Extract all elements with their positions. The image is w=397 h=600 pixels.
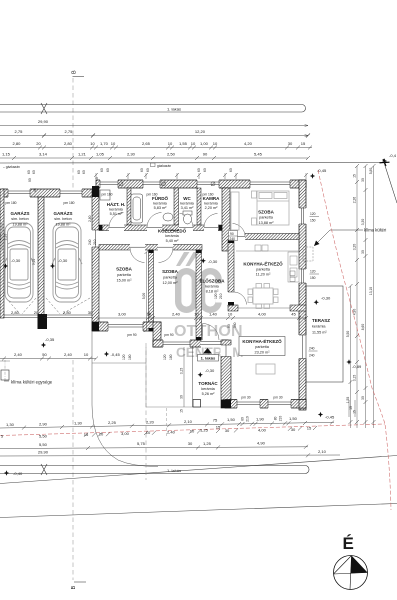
- svg-text:10: 10: [194, 312, 199, 317]
- wall SZOBA1-SZOBA2: [149, 250, 154, 331]
- svg-text:parketta: parketta: [255, 345, 270, 349]
- svg-text:30: 30: [361, 178, 365, 182]
- garage middle wall: [38, 197, 44, 318]
- svg-text:2,75: 2,75: [65, 129, 74, 134]
- wall SZOBAr bottom: [230, 233, 299, 240]
- SECTION-BOTTOM: [0, 416, 397, 590]
- garage door swing dashes 1: [6, 298, 36, 314]
- svg-text:60: 60: [100, 168, 104, 172]
- tiny rotated dims top wall: [27, 168, 237, 360]
- svg-text:kerámia: kerámia: [201, 387, 215, 391]
- SECTION-LABELS: [0, 168, 362, 413]
- svg-text:15: 15: [307, 426, 312, 431]
- room KAMRA: [203, 196, 220, 210]
- svg-text:30: 30: [361, 396, 365, 400]
- boundary corner marker: [380, 159, 390, 166]
- svg-text:kerámia: kerámia: [165, 234, 179, 238]
- svg-text:30: 30: [225, 428, 230, 433]
- front door gap: [201, 340, 222, 348]
- klima kulteri label right: [314, 228, 386, 247]
- entrance marker 1.lakas: [198, 348, 219, 361]
- corridor bottom wall: [99, 244, 202, 251]
- svg-text:60: 60: [197, 168, 201, 172]
- svg-text:pm 180: pm 180: [6, 201, 17, 205]
- svg-text:1,30: 1,30: [74, 421, 83, 426]
- svg-text:12,00 m²: 12,00 m²: [163, 281, 179, 285]
- svg-text:B: B: [72, 70, 78, 74]
- dim row B line: [0, 135, 308, 137]
- svg-text:pm 90: pm 90: [127, 333, 136, 337]
- east wall window KONYHA 120/150: [299, 269, 307, 283]
- dim row plan middle: [94, 312, 308, 321]
- driveway south line garage1 stub: [0, 360, 10, 362]
- garage window 1: [8, 188, 30, 197]
- svg-text:2,50: 2,50: [167, 152, 176, 157]
- red utility dashed line: [0, 424, 385, 436]
- svg-text:3,30: 3,30: [361, 219, 365, 226]
- svg-text:5,50: 5,50: [39, 442, 48, 447]
- svg-text:120: 120: [163, 354, 167, 360]
- svg-text:parketta: parketta: [117, 273, 132, 277]
- svg-text:1,40: 1,40: [209, 312, 218, 317]
- konyha SW corner black: [221, 400, 231, 409]
- svg-text:4,20: 4,20: [244, 141, 253, 146]
- room ELOSZOBA: [199, 278, 225, 294]
- dim 3.15 tornac: [180, 347, 185, 413]
- door jamb caps: [99, 225, 234, 341]
- bathroom sink: [163, 213, 173, 221]
- svg-text:80: 80: [274, 416, 278, 420]
- wall FURDO-WC: [174, 188, 179, 225]
- konyha SE corner black: [299, 400, 306, 409]
- svg-text:KAMRA: KAMRA: [203, 196, 220, 201]
- room TERASZ: [312, 318, 330, 335]
- level marker -0.30 g1: [3, 258, 21, 269]
- tornac porch outline: [146, 347, 221, 407]
- svg-text:HÁZT. H.: HÁZT. H.: [107, 201, 126, 207]
- boundary line south A: [0, 456, 397, 484]
- level marker -0.35: [41, 337, 55, 348]
- garage door swing dashes 2: [46, 298, 90, 314]
- east wall: [299, 180, 306, 410]
- svg-text:2,10: 2,10: [318, 449, 327, 454]
- svg-text:29,90: 29,90: [38, 450, 49, 455]
- svg-text:10: 10: [228, 312, 233, 317]
- svg-text:TORNÁC: TORNÁC: [198, 380, 218, 386]
- boundary line south B: [0, 504, 397, 518]
- svg-text:-0,30: -0,30: [208, 259, 218, 264]
- dim row A line 29.90: [0, 125, 308, 127]
- svg-text:1. lakás: 1. lakás: [201, 356, 216, 361]
- svg-text:1,50: 1,50: [227, 417, 236, 422]
- svg-text:SZOBA: SZOBA: [116, 267, 133, 272]
- driveway edge: [92, 331, 158, 467]
- svg-text:2,10: 2,10: [4, 234, 8, 241]
- svg-text:30: 30: [180, 395, 184, 399]
- house top wall: [96, 180, 306, 188]
- front window SZOBA2 pm90: [163, 339, 190, 347]
- watermark O ring: [178, 271, 195, 310]
- svg-text:150: 150: [310, 276, 316, 280]
- level marker -0.45 front: [104, 351, 121, 357]
- svg-text:30: 30: [361, 250, 365, 254]
- svg-text:KONYHA-ÉTKEZŐ: KONYHA-ÉTKEZŐ: [243, 260, 283, 267]
- svg-text:60: 60: [32, 170, 36, 174]
- svg-text:20: 20: [34, 310, 39, 315]
- svg-text:-0,30: -0,30: [11, 258, 21, 263]
- svg-text:60: 60: [146, 168, 150, 172]
- svg-text:20: 20: [99, 432, 104, 437]
- svg-text:11,20 m²: 11,20 m²: [256, 273, 271, 277]
- wall SZOBA2-ELOSZOBA: [196, 250, 202, 340]
- svg-text:GARÁZS: GARÁZS: [54, 210, 73, 216]
- svg-text:29,90: 29,90: [38, 119, 49, 124]
- svg-text:2,40: 2,40: [0, 234, 2, 241]
- svg-text:5,51 m²: 5,51 m²: [110, 212, 124, 216]
- svg-text:1,05: 1,05: [96, 152, 105, 157]
- svg-text:210: 210: [279, 416, 283, 422]
- door arc ELOSZOBA-KONYHA: [234, 292, 247, 305]
- car garage 2: [52, 223, 82, 302]
- svg-text:-0,40: -0,40: [13, 471, 23, 476]
- dim garage bottom row: [11, 310, 93, 315]
- party wall door gap 240/210: [92, 230, 100, 247]
- break mark X on bottom pill: [41, 464, 47, 475]
- door arc KAMRA: [204, 214, 218, 228]
- wall HAZT-FURDO: [127, 188, 131, 225]
- room HAZT H: [107, 201, 126, 216]
- svg-text:1,90: 1,90: [256, 417, 265, 422]
- level marker -0.30 eloszoba: [201, 258, 218, 264]
- svg-text:3,15: 3,15: [353, 375, 357, 382]
- dim row H line 29.90: [0, 455, 340, 456]
- left edge dim stubs: [0, 223, 8, 250]
- svg-text:340: 340: [233, 322, 237, 328]
- sofa table KONYHAlow: [256, 364, 275, 374]
- svg-text:45: 45: [95, 177, 99, 181]
- compass rose: [334, 556, 368, 590]
- break mark X on pill: [41, 103, 47, 114]
- door arc SZOBA2: [159, 248, 174, 263]
- svg-text:TERASZ: TERASZ: [312, 318, 330, 323]
- wall KONYHAup-KONYHAlow east stub: [290, 305, 306, 311]
- svg-text:2,20: 2,20: [146, 419, 155, 424]
- watermark C ring: [202, 271, 219, 310]
- garage window 2: [60, 188, 82, 197]
- window RL labels: [290, 271, 295, 282]
- section line B (vertical dashed): [72, 78, 74, 192]
- svg-text:-0,4: -0,4: [389, 153, 397, 158]
- svg-text:150: 150: [310, 219, 316, 223]
- level marker -0.30 terasz low: [346, 359, 362, 369]
- svg-text:1,50: 1,50: [289, 416, 298, 421]
- watermark O double acute accent: [176, 252, 199, 266]
- tornac inner line: [192, 347, 194, 407]
- front door arc: [203, 324, 220, 341]
- svg-text:90: 90: [230, 232, 234, 236]
- svg-text:pm 180: pm 180: [64, 201, 75, 205]
- svg-text:23,20 m²: 23,20 m²: [255, 351, 271, 355]
- kitchen counter KONYHAup: [236, 245, 299, 282]
- svg-text:kerámia: kerámia: [109, 208, 123, 212]
- room KOZLEKEDO: [158, 228, 187, 244]
- svg-text:50: 50: [42, 352, 47, 357]
- svg-text:5,26 m²: 5,26 m²: [202, 392, 216, 396]
- dim 5.00 szoba: [142, 250, 151, 332]
- svg-text:19,88 m²: 19,88 m²: [13, 223, 29, 227]
- room WC: [180, 196, 194, 210]
- svg-text:90: 90: [203, 152, 208, 157]
- svg-text:4,00: 4,00: [258, 312, 267, 317]
- door arc HAZT: [109, 213, 124, 228]
- room SZOBA 2: [162, 269, 179, 285]
- door gap TORNAC-KONYHA: [221, 345, 232, 357]
- room KONYHA low boxed: [239, 337, 285, 356]
- svg-text:210: 210: [93, 239, 97, 245]
- walkway line: [92, 362, 146, 364]
- svg-text:2,30: 2,30: [127, 152, 136, 157]
- SECTION-MISC: [0, 173, 308, 480]
- svg-text:2,25: 2,25: [108, 420, 117, 425]
- svg-text:1,25: 1,25: [203, 441, 212, 446]
- dim row G line: [0, 447, 308, 449]
- svg-text:2,26: 2,26: [353, 197, 357, 204]
- garage middle wall stub: [38, 314, 48, 329]
- door size label 90/240: [229, 231, 238, 242]
- svg-text:sim. beton: sim. beton: [54, 217, 72, 221]
- svg-text:5,50: 5,50: [39, 433, 48, 438]
- svg-text:pm 160: pm 160: [203, 193, 214, 197]
- svg-text:parketta: parketta: [163, 276, 178, 280]
- svg-text:1,55: 1,55: [179, 141, 188, 146]
- svg-text:10: 10: [84, 352, 89, 357]
- window size labels right: [310, 212, 320, 223]
- top wall window FURDO: [143, 179, 160, 188]
- red boundary curve right: [318, 170, 391, 510]
- svg-text:3,14: 3,14: [39, 152, 48, 157]
- svg-text:ELŐSZOBA: ELŐSZOBA: [199, 278, 225, 284]
- svg-text:15: 15: [180, 409, 184, 413]
- svg-text:75: 75: [213, 417, 218, 422]
- svg-text:2,10: 2,10: [184, 419, 193, 424]
- svg-text:3,41 m²: 3,41 m²: [181, 206, 195, 210]
- dim row E line: [0, 422, 334, 428]
- door arc SZOBA1: [130, 248, 145, 263]
- svg-text:13,10: 13,10: [369, 287, 373, 295]
- svg-text:É: É: [343, 534, 354, 553]
- dim row below garage: [0, 352, 98, 361]
- svg-text:kerámia: kerámia: [205, 285, 219, 289]
- svg-text:7,10: 7,10: [32, 259, 36, 266]
- tornac post: [193, 400, 201, 408]
- svg-text:kerámia: kerámia: [153, 202, 167, 206]
- level marker -0.30 g2: [50, 258, 68, 269]
- svg-text:B: B: [71, 586, 77, 590]
- svg-text:120: 120: [214, 293, 218, 299]
- svg-text:1,15: 1,15: [2, 152, 11, 157]
- east wall terrace door 240/240: [299, 335, 307, 359]
- vent circle 2: [162, 182, 166, 186]
- street pill bottom: [0, 466, 309, 474]
- svg-text:210: 210: [246, 416, 250, 422]
- room FURDO: [152, 195, 168, 210]
- svg-text:5,50: 5,50: [346, 331, 350, 338]
- door arc FURDO: [147, 213, 162, 228]
- svg-text:parketta: parketta: [259, 216, 274, 220]
- svg-text:120: 120: [310, 212, 316, 216]
- konyha south window 2: [268, 399, 291, 409]
- svg-text:120: 120: [310, 270, 316, 274]
- svg-text:KONYHA-ÉTKEZŐ: KONYHA-ÉTKEZŐ: [242, 337, 282, 344]
- terrace outline: [306, 286, 343, 382]
- svg-text:15: 15: [301, 141, 306, 146]
- svg-text:60: 60: [27, 170, 31, 174]
- svg-text:2,40: 2,40: [167, 429, 176, 434]
- gazkazan label mid with symbol: [151, 163, 156, 167]
- svg-text:4,90: 4,90: [353, 309, 357, 316]
- svg-text:SZOBA: SZOBA: [162, 269, 179, 274]
- boundary east diagonal: [384, 163, 397, 204]
- wall ELOSZOBA-KONYHAup: [228, 240, 234, 306]
- dim row C line: [0, 147, 312, 149]
- svg-text:3,15: 3,15: [180, 368, 184, 375]
- svg-text:19,88 m²: 19,88 m²: [56, 223, 72, 227]
- svg-text:4,00: 4,00: [258, 427, 267, 432]
- wall KONYHAup-KONYHAlow west stub: [228, 305, 238, 311]
- svg-text:3,20: 3,20: [353, 244, 357, 251]
- svg-text:10: 10: [90, 141, 95, 146]
- svg-text:-0,30: -0,30: [321, 296, 331, 301]
- east wall window SZOBA 120/150: [299, 208, 307, 224]
- party wall bottom junction black: [92, 322, 99, 331]
- property boundary top: [0, 162, 383, 165]
- svg-text:2,80: 2,80: [64, 141, 73, 146]
- level marker -0.30 tornac: [198, 368, 215, 377]
- svg-text:2,80: 2,80: [11, 310, 20, 315]
- svg-text:kerámia: kerámia: [180, 202, 194, 206]
- SECTION-RIGHT: [303, 153, 397, 510]
- SECTION-PLAN: [0, 179, 343, 466]
- front wall jog: [153, 322, 161, 347]
- svg-text:klíma kültéri egysége: klíma kültéri egysége: [11, 380, 53, 385]
- svg-text:15: 15: [216, 425, 221, 430]
- party wall top junction black: [92, 186, 99, 197]
- svg-text:2,75: 2,75: [15, 129, 24, 134]
- svg-text:-0,30: -0,30: [58, 258, 68, 263]
- svg-text:kerámia: kerámia: [312, 325, 326, 329]
- svg-text:2,90: 2,90: [39, 421, 48, 426]
- svg-text:120: 120: [122, 354, 126, 360]
- svg-text:1. lakás: 1. lakás: [167, 107, 181, 112]
- svg-text:sim. beton: sim. beton: [11, 217, 29, 221]
- door arc SZOBAr: [233, 224, 246, 237]
- garage west wall: [0, 189, 4, 318]
- svg-text:1. lakás: 1. lakás: [167, 468, 181, 473]
- dashdot klima line left: [4, 360, 6, 381]
- svg-text:pm 30: pm 30: [241, 396, 250, 400]
- dim row D line: [0, 157, 308, 159]
- vertical dim chain C2: [353, 164, 360, 428]
- svg-text:-0,45: -0,45: [325, 415, 335, 420]
- top wall window WC-KAMRA: [197, 179, 219, 188]
- wall TORNAC-KONYHA (west wall of konyha-low): [221, 340, 231, 408]
- svg-text:-0,35: -0,35: [45, 337, 55, 342]
- svg-text:5,45: 5,45: [254, 152, 263, 157]
- svg-text:2,80: 2,80: [88, 215, 92, 222]
- level marker -0.45 bottom right: [318, 412, 335, 420]
- room GARAZS 2: [54, 210, 73, 227]
- svg-text:-0,45: -0,45: [111, 352, 121, 357]
- top wall window SZOBA: [250, 179, 290, 188]
- svg-text:90: 90: [227, 324, 231, 328]
- svg-text:KÖZLEKEDŐ: KÖZLEKEDŐ: [158, 228, 187, 234]
- svg-text:10: 10: [111, 141, 116, 146]
- konyha south wall: [225, 400, 306, 409]
- door gap ELOSZOBA-KONYHAlow: [228, 292, 235, 305]
- svg-text:1,30: 1,30: [6, 422, 15, 427]
- room KONYHA up: [243, 260, 283, 277]
- svg-text:8,60: 8,60: [361, 324, 365, 331]
- vent circle 3: [211, 182, 215, 186]
- room SZOBA right: [258, 210, 275, 226]
- svg-text:30: 30: [288, 141, 293, 146]
- svg-text:11,55 m²: 11,55 m²: [312, 331, 327, 335]
- svg-text:1,00: 1,00: [200, 141, 209, 146]
- wardrobe SZOBAr: [231, 192, 239, 230]
- klima label left: [4, 380, 53, 385]
- svg-text:1,21: 1,21: [78, 152, 87, 157]
- garage front line: [4, 314, 38, 316]
- washer HAZT: [100, 190, 110, 200]
- wall KAMRA-SZOBA thick: [222, 188, 230, 251]
- top wall window HAZT: [100, 179, 118, 188]
- svg-text:2,40: 2,40: [172, 312, 181, 317]
- svg-text:240: 240: [88, 239, 92, 245]
- level marker -0.30 terasz: [314, 296, 331, 305]
- party wall garage-house: [92, 189, 99, 331]
- svg-text:10: 10: [213, 141, 218, 146]
- svg-text:WC: WC: [183, 196, 191, 201]
- svg-text:10: 10: [190, 429, 195, 434]
- svg-text:15: 15: [353, 410, 357, 414]
- level marker -0.40: [4, 470, 23, 476]
- bathtub: [131, 194, 143, 223]
- watermark C gap notch: [216, 284, 223, 303]
- bed SZOBAr: [252, 191, 290, 225]
- svg-text:30: 30: [88, 310, 93, 315]
- SECTION-WATERMARK: [174, 252, 244, 360]
- svg-text:gázkazán: gázkazán: [157, 164, 171, 168]
- vertical dim chain C4: [369, 164, 376, 428]
- konyha south window 1: [237, 399, 260, 409]
- svg-text:10: 10: [147, 312, 151, 316]
- level marker boundary NE: [382, 153, 397, 164]
- vent circle 1: [119, 182, 123, 186]
- svg-text:240: 240: [230, 237, 236, 241]
- svg-text:5,83 m²: 5,83 m²: [154, 206, 168, 210]
- car garage 1: [4, 223, 34, 302]
- dim ticks top right short: [349, 400, 355, 417]
- room SZOBA 1: [116, 267, 133, 283]
- svg-text:pm 90: pm 90: [164, 333, 173, 337]
- front wall SZOBA2-ELOSZOBA: [153, 340, 228, 347]
- svg-text:180: 180: [128, 354, 132, 360]
- svg-text:10: 10: [349, 406, 353, 410]
- svg-text:8,18 m²: 8,18 m²: [206, 290, 220, 294]
- room GARAZS 1: [11, 210, 30, 227]
- short dashed line below porch: [166, 408, 168, 436]
- svg-text:pm 160: pm 160: [147, 193, 158, 197]
